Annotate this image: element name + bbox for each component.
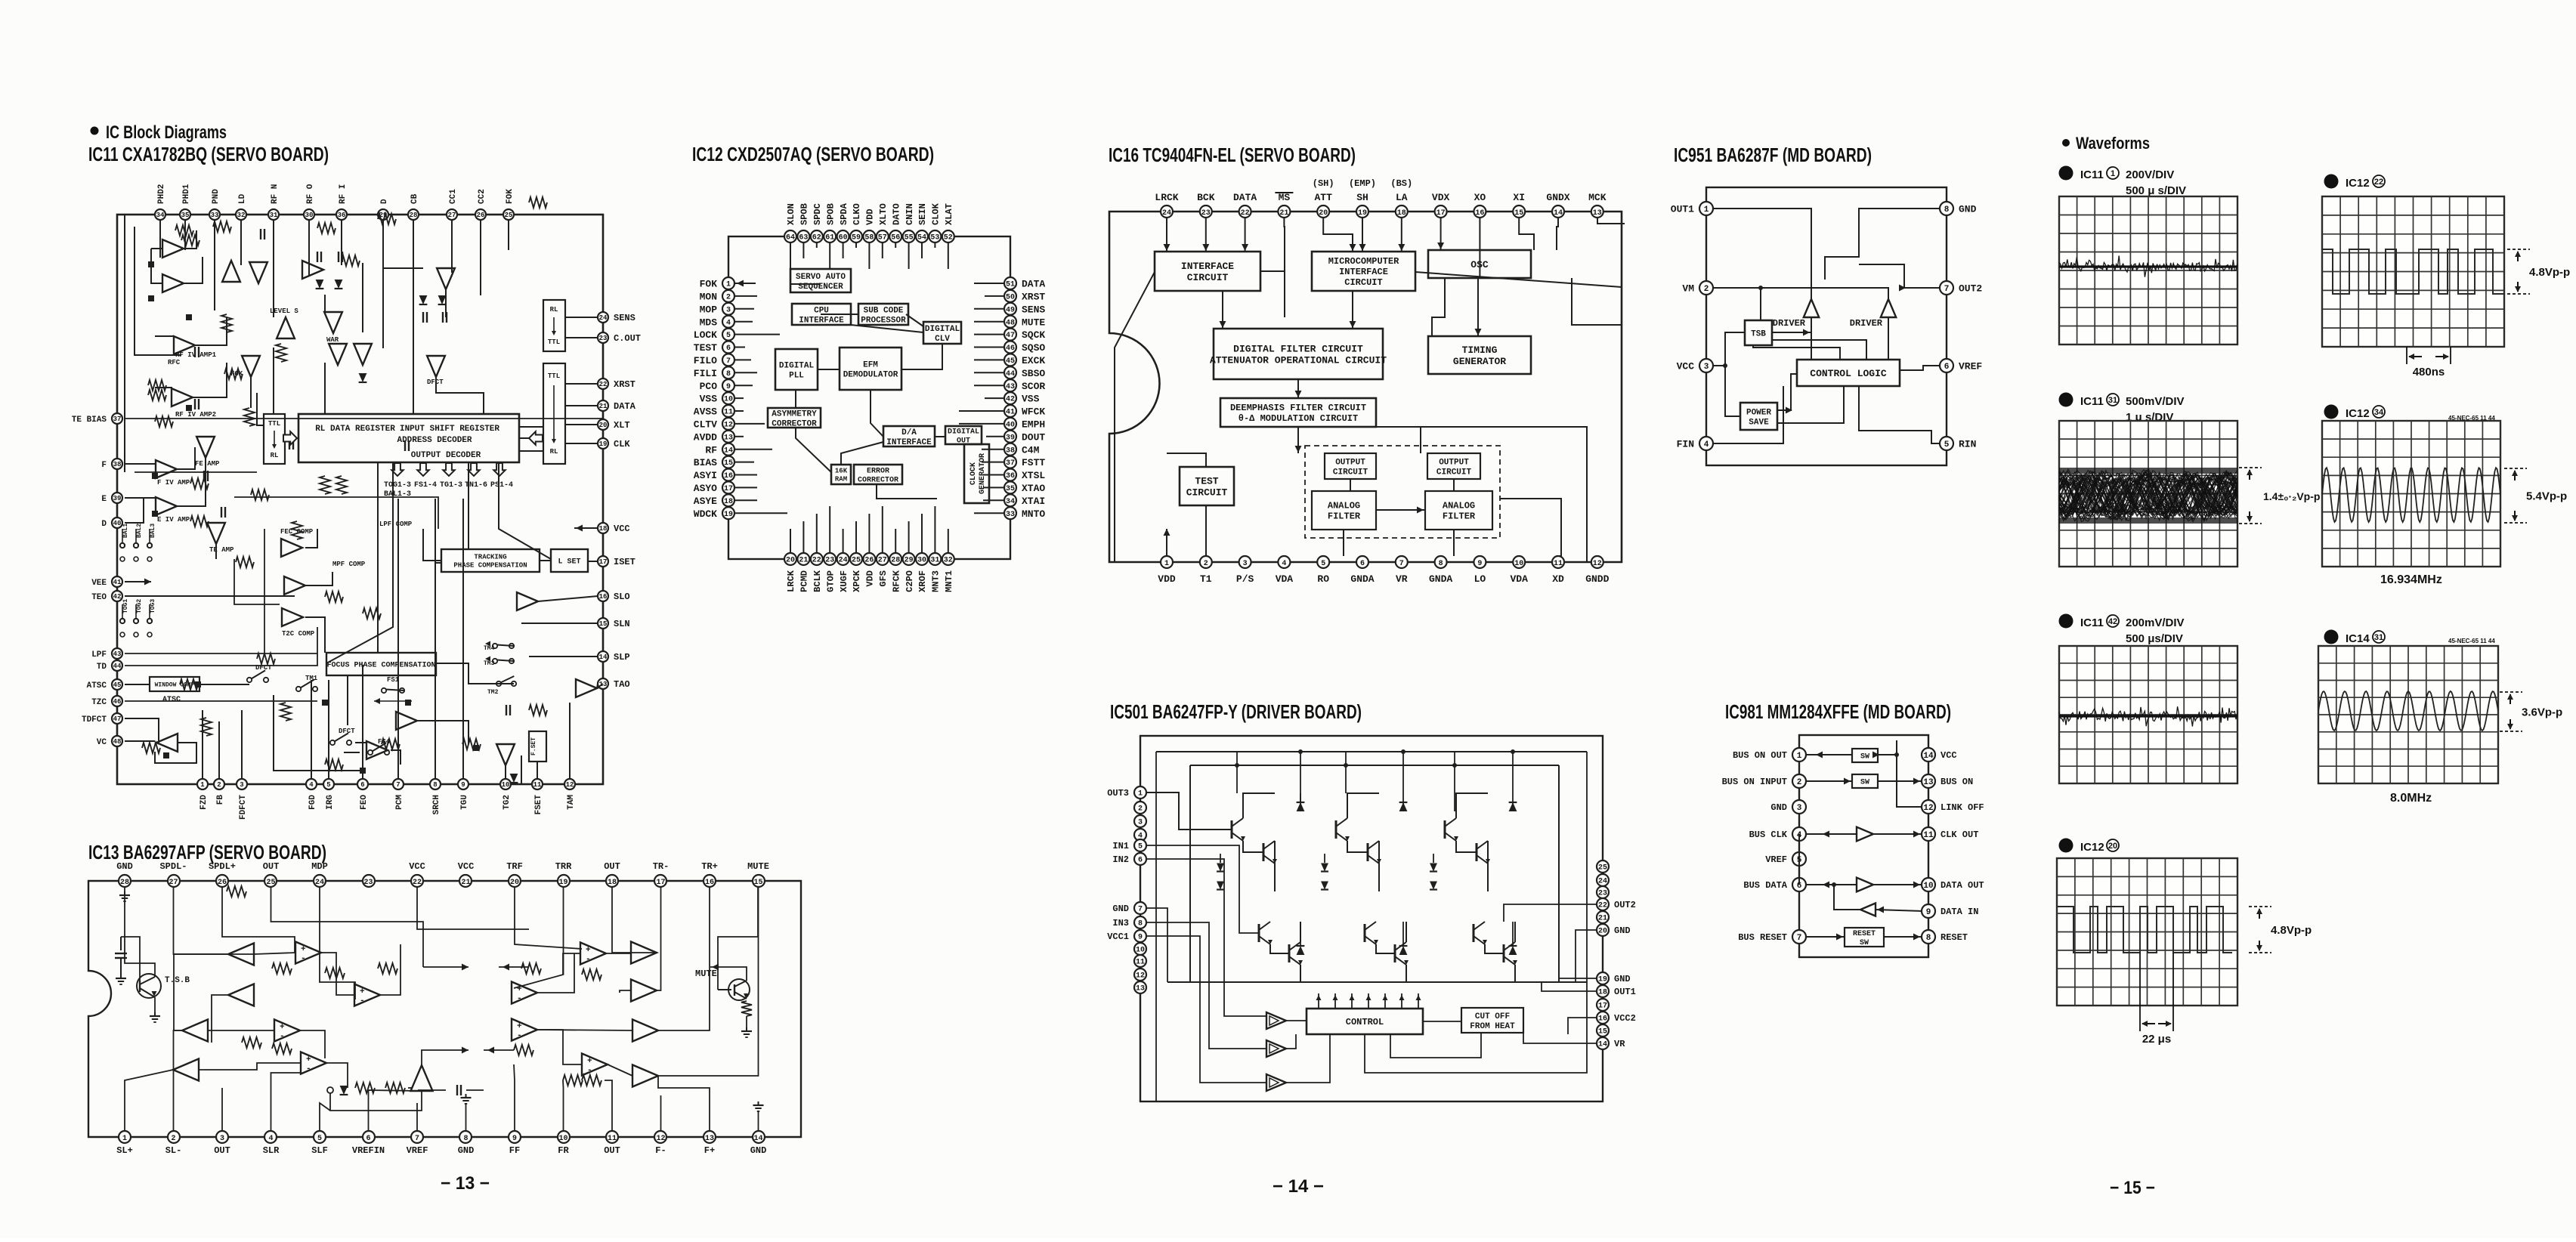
svg-text:FROM HEAT: FROM HEAT [1470,1022,1515,1031]
svg-text:23: 23 [599,335,608,342]
svg-text:59: 59 [852,234,861,243]
IC11 amp A12 [302,261,323,279]
svg-text:DATA: DATA [1233,192,1257,203]
IC13 pin 7 VREF [407,1131,428,1156]
svg-text:10: 10 [1514,560,1523,568]
svg-text:DEMODULATOR: DEMODULATOR [843,370,898,379]
svg-text:DRIVER: DRIVER [1850,318,1883,329]
svg-text:CLKO: CLKO [852,203,862,225]
IC951 pin 8 GND [1940,202,1977,215]
svg-text:(BS): (BS) [1390,178,1412,189]
svg-text:− 14 −: − 14 − [1273,1176,1324,1197]
IC12 pin 40 EMPH [1004,418,1045,431]
waveform label 3 IC11 pin42 [2059,614,2185,646]
IC11 pin 5 IRG [323,779,335,810]
IC13 buffer L1 [228,944,254,965]
svg-text:ANALOG: ANALOG [1328,501,1360,511]
svg-text:28: 28 [410,212,418,219]
svg-text:3: 3 [1138,819,1143,827]
IC11 capacitor C1 [194,347,196,357]
svg-text:480ns: 480ns [2413,366,2445,378]
IC501 pin 6 IN2 [1112,853,1146,865]
svg-text:VEE: VEE [91,579,107,588]
IC11 block L SET [551,549,588,572]
IC12 pin 12 CLTV [694,418,734,431]
svg-text:VDD: VDD [865,209,876,225]
IC11 pin 12 TAM [564,779,576,810]
svg-text:3: 3 [220,1135,224,1143]
svg-text:1: 1 [1138,790,1143,799]
svg-text:FOK: FOK [506,189,515,204]
IC13 resistor R7 [242,1037,261,1048]
svg-text:19: 19 [1598,976,1607,984]
IC11 pin 27 CC1 [447,189,458,220]
svg-text:XLT: XLT [614,420,630,431]
svg-text:22: 22 [599,381,608,388]
svg-text:P/S: P/S [1236,573,1254,585]
IC11 resistor R17 [462,739,481,749]
svg-text:500 μs/DIV: 500 μs/DIV [2126,632,2183,645]
IC12 pin 25 XPCK [850,553,862,592]
IC11 amp E IV AMP [156,497,177,515]
svg-text:13: 13 [1136,985,1145,993]
annotation 4.8Vp-p scope5 [2507,249,2570,294]
svg-text:TM2: TM2 [487,689,499,696]
svg-text:38: 38 [113,461,122,468]
IC501 pin 1 OUT3 [1107,786,1146,799]
svg-text:IC16 TC9404FN-EL (SERVO BOA: IC16 TC9404FN-EL (SERVO BOARD) [1109,144,1356,166]
IC13 pin 14 GND [750,1131,767,1156]
IC501 pin 21 [1597,911,1609,923]
svg-text:CIRCUIT: CIRCUIT [1333,468,1368,477]
svg-text:6: 6 [1360,560,1365,568]
IC11 resistor RV8 [201,718,212,736]
svg-text:LPF: LPF [91,650,107,660]
IC11 resistor R24 [325,592,343,602]
svg-text:5: 5 [1944,440,1950,450]
IC13 chip body outline with notch [88,881,801,1137]
svg-text:15: 15 [753,879,762,887]
svg-text:-: - [280,1032,285,1041]
IC12 block EFM DEMODULATOR [840,348,901,390]
IC16 pin 9 LO [1474,556,1486,585]
IC11 resistor RV4 [320,476,330,494]
IC501 upper transistor pair Q2 [1336,793,1381,891]
IC951 block CONTROL LOGIC [1797,360,1900,386]
oscilloscope grid 1 (IC11 pin 1) [2059,196,2237,344]
IC13 pin 8 GND [458,1131,475,1156]
svg-text:8: 8 [463,1135,468,1143]
svg-text:6: 6 [366,1135,370,1143]
IC951 block TSB [1745,320,1772,345]
svg-text:8: 8 [1138,920,1143,928]
IC981 pin 11 CLK OUT [1922,827,1978,841]
IC13 pin 17 TR- [653,861,670,887]
IC16 pin 7 VR [1396,556,1408,585]
svg-text:IC14: IC14 [2346,632,2370,645]
svg-text:VCC1: VCC1 [1107,931,1129,942]
svg-text:− 13 −: − 13 − [441,1173,490,1194]
svg-text:ATTENUATOR OPERATIONAL CIRCUIT: ATTENUATOR OPERATIONAL CIRCUIT [1210,355,1387,366]
svg-text:GNDA: GNDA [1429,573,1452,585]
IC11 resistor R3 [213,221,231,232]
IC981 block RESET SW [1845,928,1884,947]
svg-text:5.4Vp-p: 5.4Vp-p [2526,490,2567,502]
svg-text:AVDD: AVDD [694,431,717,443]
IC501 pin 12 [1134,969,1146,981]
svg-text:LINK OFF: LINK OFF [1941,802,1984,813]
IC501 pin 7 GND [1112,902,1146,914]
IC13 opamp A1 [295,942,321,964]
IC501 lower transistor pair Q4 [1259,922,1303,982]
svg-text:26: 26 [864,557,874,565]
svg-text:LPF COMP: LPF COMP [379,521,413,528]
IC16 pin 22 DATA [1233,192,1257,218]
svg-text:19: 19 [558,879,567,887]
svg-text:25: 25 [505,212,513,219]
IC11 pin 34 PHD2 [155,184,166,220]
IC13 pin 16 TR+ [701,861,718,887]
IC11 amp WAR [324,312,342,333]
IC12 pin 36 XTSL [1004,469,1045,482]
IC12 pin 6 TEST [694,341,734,354]
svg-text:SLN: SLN [614,619,630,629]
IC11 amp A17 [437,268,455,289]
svg-text:INTERFACE: INTERFACE [1339,267,1388,277]
svg-text:18: 18 [608,879,617,887]
annotation 3.6Vp-p scope7 [2500,692,2562,731]
annotation 5.4Vp-p scope6 [2504,468,2567,523]
svg-text:GND: GND [116,861,133,872]
svg-text:GFS: GFS [878,570,889,587]
svg-text:RFCK: RFCK [891,570,901,592]
IC11 pin 4 FGD [306,779,317,810]
IC501 clamp diodes group 2 [1321,854,1328,890]
IC981 pin 7 BUS RESET [1738,930,1806,944]
IC12 block DIGITAL OUT [945,426,982,446]
svg-text:13: 13 [1923,778,1934,787]
svg-text:SLP: SLP [614,652,630,663]
IC951 pin 2 VM [1682,281,1713,295]
svg-text:TG1-3: TG1-3 [440,481,462,490]
IC501 pin 23 [1597,886,1609,898]
svg-text:36: 36 [338,212,346,219]
svg-text:23: 23 [1201,209,1211,218]
svg-text:CNIN: CNIN [905,203,915,225]
IC11 ground 11 [405,700,411,706]
oscilloscope grid 5 (IC12 pin 22) [2322,196,2504,347]
IC501 upper transistor pair Q3 [1445,793,1490,891]
svg-text:14: 14 [1598,1041,1607,1049]
IC501 clamp diodes group 1 [1217,854,1224,890]
svg-text:XRST: XRST [1022,291,1045,302]
svg-text:VDA: VDA [1510,573,1528,585]
svg-text:(EMP): (EMP) [1349,178,1376,189]
svg-text:27: 27 [878,557,887,565]
IC11 amp T2C COMP [282,608,303,626]
svg-text:4: 4 [309,781,314,789]
waveform trace 1 noisy line [2059,256,2237,277]
svg-text:XROF: XROF [917,570,928,592]
svg-text:34: 34 [1006,498,1015,506]
svg-text:8: 8 [1439,560,1443,568]
svg-text:4: 4 [1282,560,1286,568]
IC13 buffer B4 [631,980,657,1002]
IC11 RL/TTL level shifter upper right [543,300,565,351]
svg-text:3: 3 [2064,616,2069,626]
svg-text:INPUT SHIFT REGISTER: INPUT SHIFT REGISTER [400,425,499,434]
svg-text:40: 40 [1006,422,1015,430]
IC16 pin 21 MS [1278,192,1290,218]
svg-text:32: 32 [237,212,246,219]
IC16 pin 10 VDA [1510,556,1528,585]
svg-text:SBSO: SBSO [1022,368,1045,379]
svg-text:42: 42 [2108,617,2117,626]
IC11 diode D6 [510,774,518,783]
IC12 pin 31 MNT3 [929,553,941,592]
IC11 pin 1 FZD [197,779,209,810]
IC11 resistor R12 [190,478,209,489]
IC981 pin 6 BUS DATA [1743,878,1806,891]
IC13 pin 4 SLR [263,1131,280,1156]
svg-text:12: 12 [1593,560,1602,568]
svg-text:LOCK: LOCK [694,329,717,341]
svg-text:TRR: TRR [555,861,572,872]
svg-text:19: 19 [1358,209,1367,218]
svg-text:TR+: TR+ [701,861,718,872]
svg-text:RF N: RF N [271,184,280,204]
IC11 ground 1 [148,261,154,267]
svg-text:22: 22 [413,879,422,887]
svg-text:5: 5 [726,332,731,340]
svg-text:L SET: L SET [558,558,580,567]
IC11 ground 7 [195,681,201,687]
svg-text:7: 7 [1944,285,1950,294]
svg-text:VREFIN: VREFIN [352,1145,385,1156]
IC501 buffer inner marks [1269,1016,1279,1087]
svg-text:RFC: RFC [168,359,181,366]
IC12 block SUB CODE PROCESSOR [858,304,908,325]
svg-text:7: 7 [726,357,731,366]
svg-text:PHD2: PHD2 [157,184,166,204]
IC16 pin 3 P/S [1236,556,1254,585]
svg-text:19: 19 [599,440,608,448]
svg-text:XLAT: XLAT [944,203,954,225]
svg-text:IC13 BA6297AFP (SERVO BOARD: IC13 BA6297AFP (SERVO BOARD) [88,841,326,864]
svg-text:17: 17 [724,485,733,493]
svg-text:GND: GND [750,1145,767,1156]
svg-text:XTAI: XTAI [1022,496,1045,507]
IC12 pin 33 MNTO [1004,507,1045,520]
svg-text:OUT1: OUT1 [1614,987,1636,997]
IC11 resistor R6 [155,416,173,427]
IC501 pin 11 [1134,955,1146,967]
svg-text:T1: T1 [1200,573,1212,585]
svg-text:SLR: SLR [263,1145,280,1156]
IC951 wiring net [1713,209,1940,443]
svg-text:OUTPUT: OUTPUT [1335,458,1365,467]
svg-text:LRCK: LRCK [1155,192,1178,203]
IC11 pin 15 SLN [598,618,630,629]
IC11 pin 7 PCM [393,779,404,810]
svg-text:VR: VR [1396,573,1408,585]
svg-text:XTSL: XTSL [1022,470,1045,481]
svg-text:61: 61 [825,234,834,243]
svg-text:24: 24 [839,557,848,565]
IC11 resistor RV2 [221,314,232,332]
svg-text:2: 2 [2064,394,2069,405]
waveform trace 6 16.9MHz sine [2322,468,2500,522]
svg-text:OUT2: OUT2 [1959,283,1982,295]
svg-text:AVSS: AVSS [694,406,717,418]
IC12 pin 45 EXCK [1004,354,1045,366]
svg-text:C4M: C4M [1022,444,1040,456]
IC11 switch FS1 [374,676,412,704]
IC11 resistor R21 [251,490,269,500]
svg-text:24: 24 [1162,209,1171,218]
svg-text:CIRCUIT: CIRCUIT [1436,468,1472,477]
svg-text:34: 34 [156,212,165,219]
IC12 pin 30 XROF [916,553,928,592]
svg-text:4: 4 [726,319,731,327]
svg-text:MUTE: MUTE [747,861,769,872]
svg-text:GNDX: GNDX [1546,192,1569,203]
svg-text:INTERFACE: INTERFACE [799,316,844,325]
svg-text:7: 7 [1138,906,1143,914]
svg-text:BUS ON INPUT: BUS ON INPUT [1722,777,1787,787]
svg-text:MDP: MDP [311,861,328,872]
svg-text:VCC: VCC [1677,361,1695,372]
svg-text:RL: RL [271,452,279,459]
IC11 amp DFCT [427,356,445,377]
svg-text:OUT1: OUT1 [1671,204,1694,215]
svg-text:SCOR: SCOR [1022,381,1045,392]
IC11 resistor R18 [325,759,343,770]
IC16 pin 14 GNDX [1546,192,1569,218]
svg-text:20: 20 [599,422,608,429]
svg-text:16: 16 [599,593,608,601]
svg-text:FILTER: FILTER [1328,511,1361,522]
IC11 ground 9 [360,768,366,774]
svg-text:VSS: VSS [700,394,718,405]
IC13 resistor R12 [582,1075,601,1086]
IC11 block FOCUS PHASE COMPENSATION [326,653,436,675]
IC11 pin 44 TD [97,660,122,672]
svg-text:PCMD: PCMD [799,570,810,592]
svg-text:11: 11 [533,781,542,789]
svg-text:58: 58 [864,234,874,243]
IC11 pin 41 VEE [91,576,122,588]
IC501 pin 22 OUT2 [1597,898,1636,910]
IC981 wiring net [1799,740,1922,941]
IC12 pin 41 WFCK [1004,405,1045,418]
IC12 pin 54 SEIN [916,203,928,243]
svg-text:GND: GND [1614,925,1631,936]
svg-text:22: 22 [1241,209,1250,218]
svg-text:D: D [101,520,107,529]
svg-text:47: 47 [113,715,122,723]
svg-text:63: 63 [799,234,808,243]
IC13 wiring net [125,887,764,1131]
svg-text:16: 16 [705,879,714,887]
svg-text:TOG1: TOG1 [122,599,129,613]
svg-text:SLF: SLF [311,1145,328,1156]
svg-text:DOUT: DOUT [1022,431,1045,443]
svg-text:35: 35 [1006,485,1015,493]
svg-text:BIAS: BIAS [694,457,717,468]
svg-text:GND: GND [1112,904,1129,914]
svg-text:500 μ s/DIV: 500 μ s/DIV [2126,184,2186,197]
IC13 battery symbol left [115,937,127,984]
IC12 pin 29 C2PO [903,553,915,592]
svg-text:6: 6 [2329,406,2334,417]
IC11 diode D5 [359,373,367,382]
IC12 chip body outline [728,236,1010,559]
svg-text:SL+: SL+ [116,1145,133,1156]
IC11 pin 33 PND [209,189,221,220]
IC12 pin 7 FILO [694,354,734,366]
IC11 pin 22 XRST [598,378,635,390]
svg-text:RF IV AMP2: RF IV AMP2 [175,411,216,419]
IC11 amp A24 [366,741,388,759]
svg-text:43: 43 [113,650,122,658]
IC12 block CLOCK GENERATOR [964,444,989,503]
IC16 pin 18 LA [1396,192,1408,218]
IC12 block D/A INTERFACE [883,426,935,447]
IC501 chip body outline [1140,736,1603,1101]
IC12 pin 9 PCO [700,379,734,392]
svg-text:TGU: TGU [460,795,469,810]
svg-text:BUS ON: BUS ON [1941,777,1973,787]
svg-text:PLL: PLL [789,371,804,380]
svg-text:1.4±₀·₂Vp-p: 1.4±₀·₂Vp-p [2263,490,2320,502]
IC11 resistor RV5 [336,476,347,494]
svg-text:FGD: FGD [308,795,317,810]
svg-text:16K: 16K [835,468,848,475]
svg-text:(SH): (SH) [1313,178,1334,189]
IC13 pin 28 GND [116,861,133,887]
svg-text:TAO: TAO [614,679,630,690]
svg-text:2: 2 [726,294,731,302]
IC11 switch TM4 [484,641,514,653]
svg-text:FILO: FILO [694,355,717,366]
svg-text:41: 41 [1006,409,1015,417]
IC13 opamp C5 [411,1065,433,1091]
IC12 pin 42 VSS [1004,392,1040,405]
svg-text:43: 43 [1006,383,1015,391]
svg-text:ASYE: ASYE [694,496,717,507]
IC12 block ASYMMETRY CORRECTOR [768,408,821,428]
IC11 pin 17 ISET [598,556,635,567]
svg-text:30: 30 [917,557,926,565]
svg-text:PCO: PCO [700,381,718,392]
IC13 buffer C3 [173,1059,199,1081]
svg-text:OUT3: OUT3 [1107,788,1129,799]
svg-text:VCC2: VCC2 [1614,1013,1636,1024]
svg-text:15: 15 [599,620,608,628]
svg-text:RAM: RAM [835,476,847,484]
svg-text:IC Block Diagrams: IC Block Diagrams [106,122,227,143]
svg-text:FSET: FSET [534,795,543,815]
IC13 pin 18 OUT [604,861,620,887]
IC11 capacitor C7 [260,229,261,239]
svg-text:56: 56 [891,234,900,243]
IC16 block ANALOG FILTER right [1425,491,1492,530]
svg-text:SQCK: SQCK [1022,329,1045,341]
IC13 pin 20 TRF [506,861,523,887]
IC11 pin 21 DATA [598,400,636,412]
svg-text:10: 10 [724,396,733,404]
